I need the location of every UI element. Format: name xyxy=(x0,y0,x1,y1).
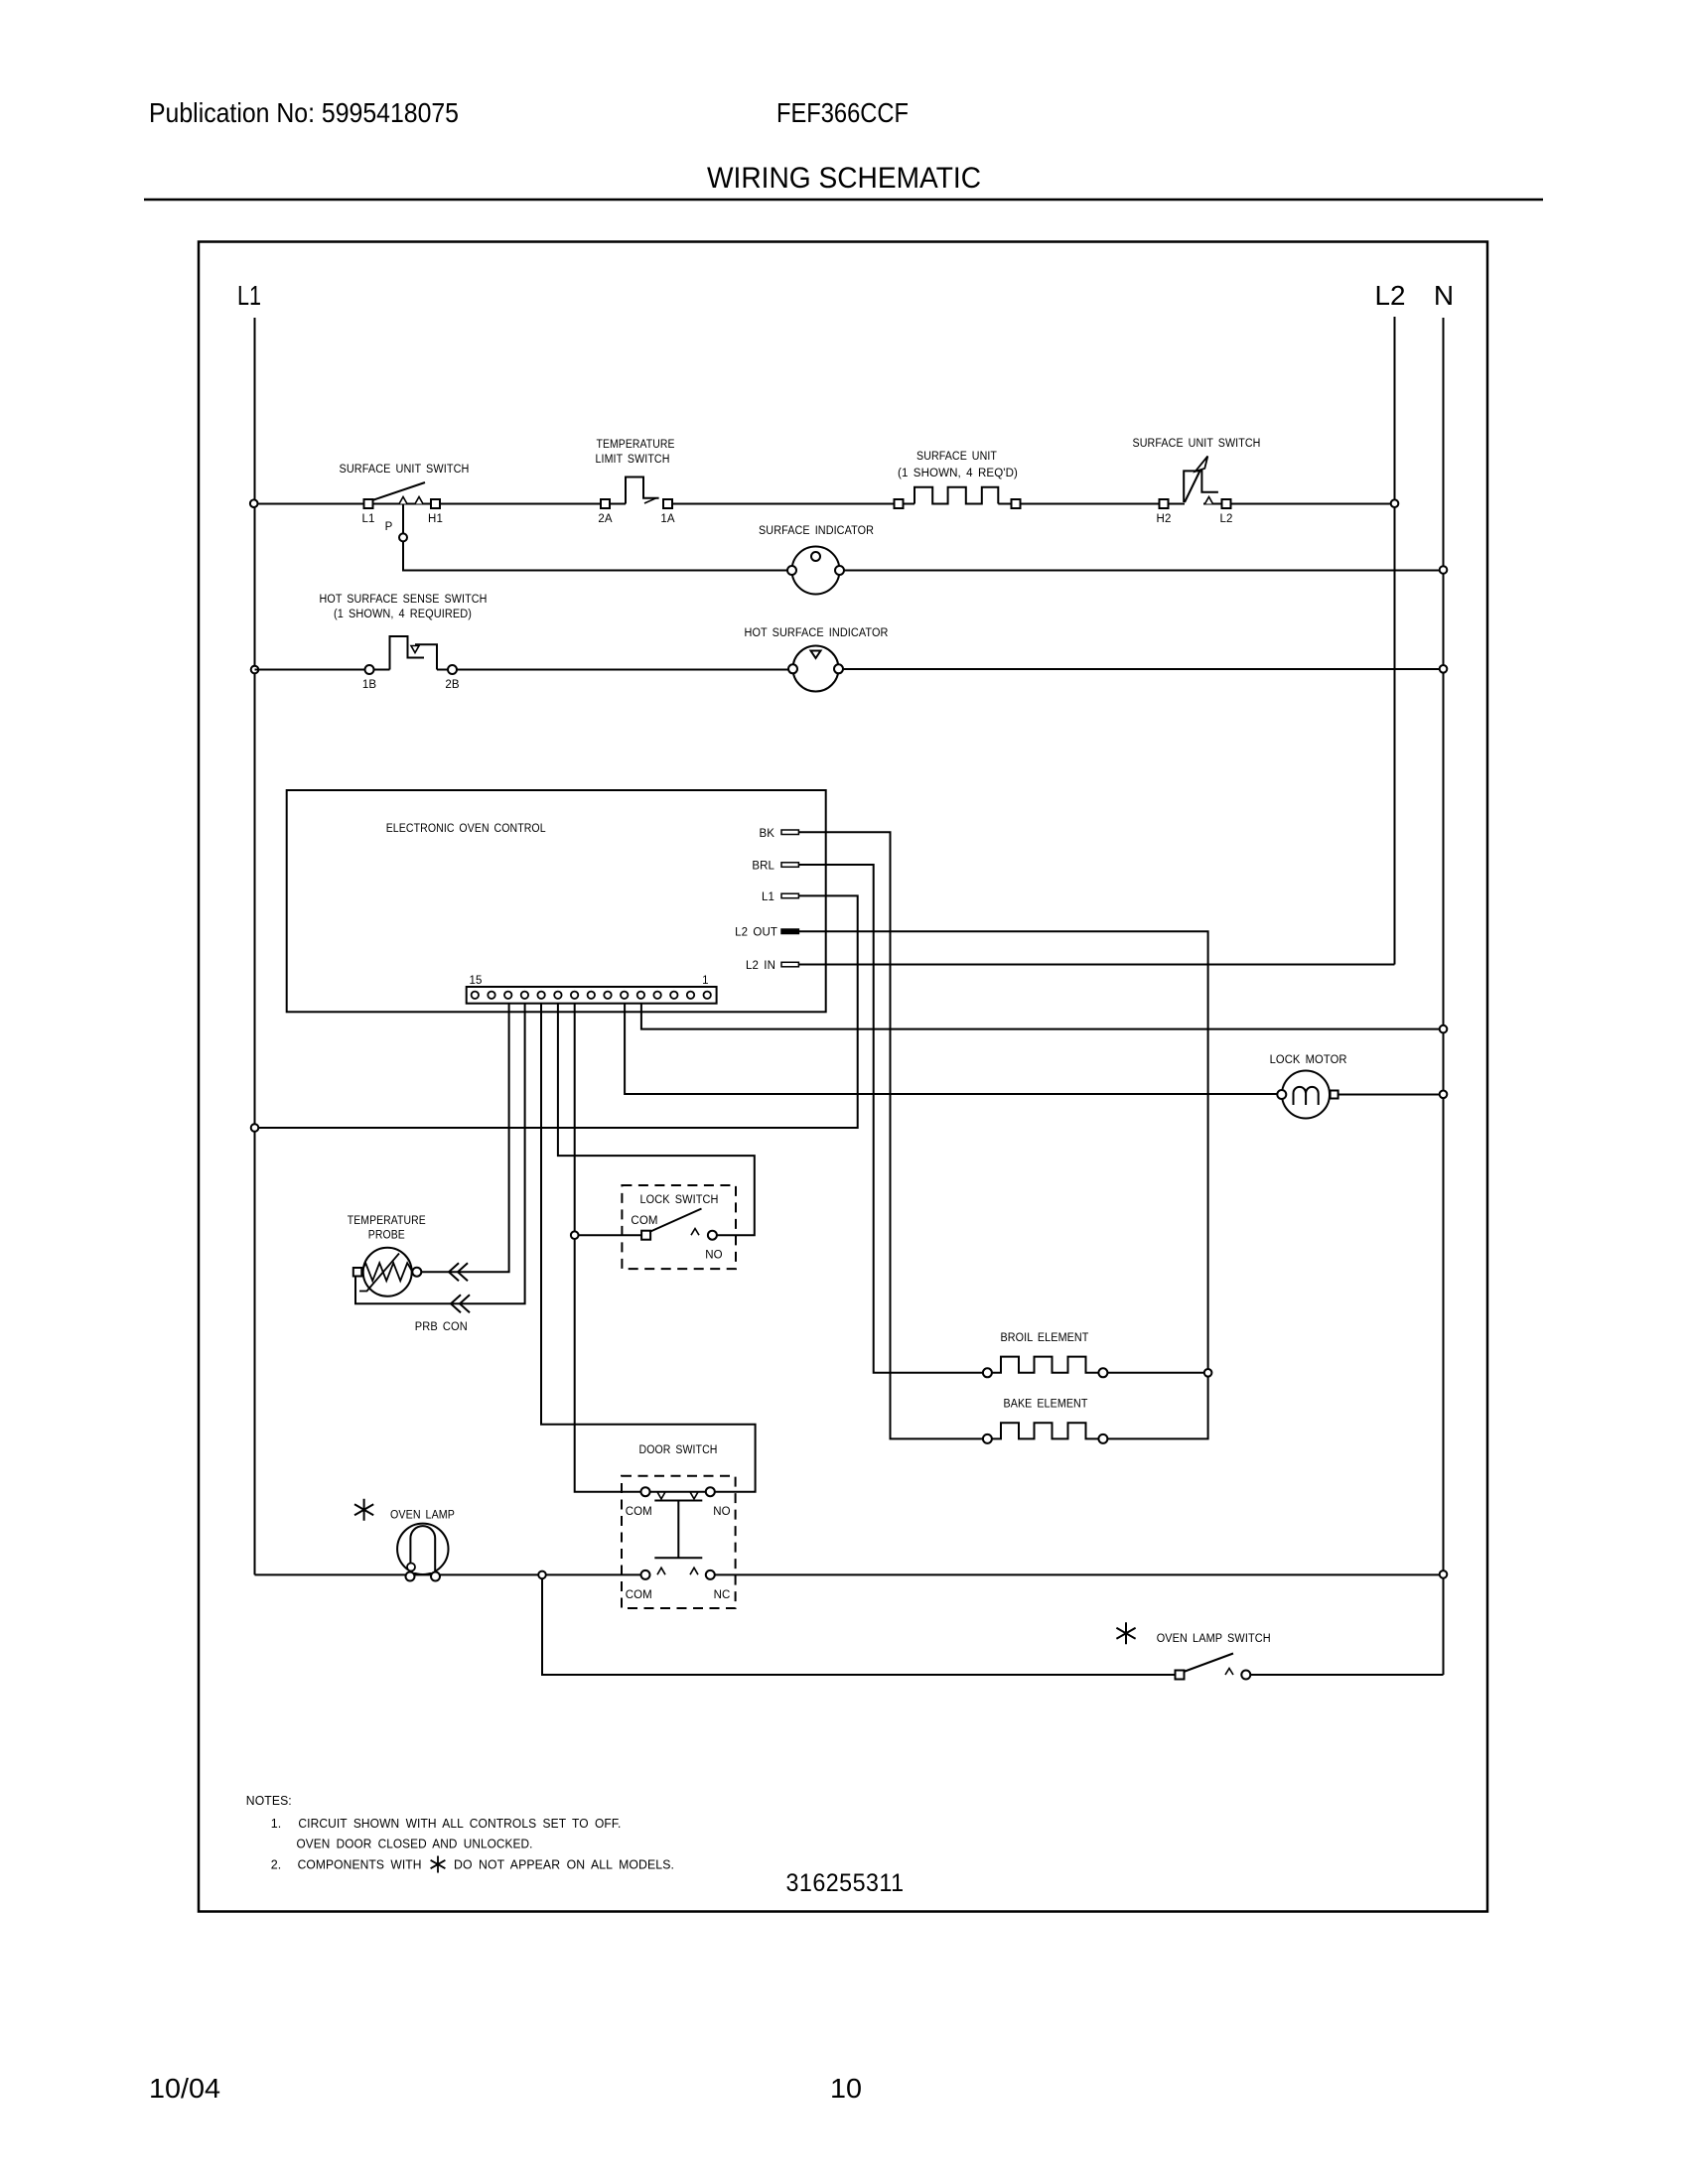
switch sense terminal 2B circle xyxy=(448,665,457,674)
svg-text:BK: BK xyxy=(759,828,774,840)
probe resistor zigzag xyxy=(361,1263,412,1281)
switch sense left bump xyxy=(390,636,425,670)
wire pin3 to temperature probe xyxy=(421,1004,508,1272)
svg-text:P: P xyxy=(385,521,393,533)
lamp surface indicator right terminal xyxy=(835,566,844,575)
svg-text:1.: 1. xyxy=(271,1817,282,1831)
svg-text:(1 SHOWN, 4 REQUIRED): (1 SHOWN, 4 REQUIRED) xyxy=(334,609,472,620)
switch door actuator xyxy=(654,1501,702,1559)
connector chevrons probe bottom xyxy=(451,1295,470,1312)
switch door lower contact triangle right xyxy=(690,1568,698,1574)
svg-text:LIMIT SWITCH: LIMIT SWITCH xyxy=(596,454,670,466)
title underline rule xyxy=(144,199,1543,202)
probe left terminal square xyxy=(353,1268,362,1277)
svg-text:NC: NC xyxy=(714,1589,731,1601)
svg-text:L2 IN: L2 IN xyxy=(746,960,775,972)
wire row3 L1 to 1B xyxy=(255,669,365,671)
switch sense contact triangle down xyxy=(411,646,419,653)
wire BRL to broil element xyxy=(798,865,983,1373)
wire oven lamp row L1 to door switch xyxy=(255,1573,641,1575)
svg-text:L2: L2 xyxy=(1375,280,1406,311)
svg-text:CIRCUIT SHOWN WITH ALL CONTROL: CIRCUIT SHOWN WITH ALL CONTROLS SET TO O… xyxy=(298,1817,621,1831)
svg-text:HOT SURFACE SENSE SWITCH: HOT SURFACE SENSE SWITCH xyxy=(320,594,488,606)
svg-text:2B: 2B xyxy=(445,679,459,691)
svg-text:L1: L1 xyxy=(762,891,774,903)
svg-text:ELECTRONIC OVEN CONTROL: ELECTRONIC OVEN CONTROL xyxy=(386,823,546,835)
lamp hot surface indicator top pin triangle xyxy=(811,651,821,659)
switch door lower contact triangle left xyxy=(657,1568,665,1574)
svg-text:SURFACE UNIT SWITCH: SURFACE UNIT SWITCH xyxy=(340,464,470,476)
switch S2 terminal H2 square xyxy=(1160,499,1169,508)
node L1 bus EOC tap xyxy=(251,1124,259,1132)
wire row2 to N bus xyxy=(844,570,1444,572)
svg-text:2A: 2A xyxy=(598,513,612,525)
wire 1B to bump xyxy=(374,669,390,671)
wire oven lamp row door NC to N xyxy=(715,1573,1444,1575)
node row3 at L1 bus xyxy=(251,666,259,674)
lamp surface indicator body xyxy=(792,547,840,595)
svg-text:OVEN DOOR CLOSED AND UNLOCKED.: OVEN DOOR CLOSED AND UNLOCKED. xyxy=(297,1838,533,1851)
lamp oven lamp inner terminal xyxy=(407,1564,415,1571)
svg-text:Publication No: 5995418075: Publication No: 5995418075 xyxy=(149,97,459,128)
switch S2 flag xyxy=(1184,471,1218,502)
wire row1 L2 terminal to L2 bus xyxy=(1203,503,1395,505)
switch sense terminal 1B circle xyxy=(365,665,374,674)
node pin11 wire at N bus xyxy=(1440,1025,1448,1033)
wire L2 IN to L2 bus xyxy=(798,964,1394,966)
wire drop to lamp switch row xyxy=(542,1578,1176,1675)
pin L2 IN stub xyxy=(781,962,798,967)
wire P drop from switch xyxy=(402,504,404,534)
motor lock motor winding xyxy=(1294,1087,1319,1105)
svg-text:NO: NO xyxy=(705,1250,722,1262)
switch S1 contact triangle H1 xyxy=(415,497,423,504)
wire P drop to row2 xyxy=(403,541,787,570)
switch temp limit bump xyxy=(626,478,659,504)
node row2 at N bus xyxy=(1440,566,1448,574)
switch oven lamp left terminal square xyxy=(1176,1671,1185,1680)
svg-text:COM: COM xyxy=(626,1506,652,1518)
svg-text:15: 15 xyxy=(470,975,483,987)
switch lock COM terminal square xyxy=(641,1231,650,1240)
node row1 at L2 bus xyxy=(1391,499,1399,507)
node row1 at L1 bus xyxy=(250,499,258,507)
heater surface unit left terminal square xyxy=(895,499,904,508)
motor lock motor right terminal square xyxy=(1331,1091,1338,1099)
svg-text:TEMPERATURE: TEMPERATURE xyxy=(348,1215,426,1227)
svg-text:PRB CON: PRB CON xyxy=(415,1321,468,1333)
wire row3 indicator to N xyxy=(843,668,1444,670)
heater bake left terminal xyxy=(983,1434,992,1443)
svg-text:COM: COM xyxy=(626,1589,652,1601)
wire lamp switch to N corner xyxy=(1250,1674,1443,1676)
switch temp limit terminal 1A square xyxy=(663,499,672,508)
switch S1 terminal H1 square xyxy=(431,499,440,508)
heater broil right terminal xyxy=(1098,1368,1107,1377)
svg-text:TEMPERATURE: TEMPERATURE xyxy=(597,439,675,451)
switch door upper contact triangle left xyxy=(657,1492,665,1499)
pin L1 stub xyxy=(781,893,798,898)
svg-text:NO: NO xyxy=(713,1506,730,1518)
svg-text:BROIL ELEMENT: BROIL ELEMENT xyxy=(1001,1332,1089,1344)
svg-text:NOTES:: NOTES: xyxy=(246,1794,292,1808)
svg-text:BRL: BRL xyxy=(752,861,774,873)
probe thermistor arrow xyxy=(359,1254,399,1292)
wire pin5 to door switch NO xyxy=(541,1004,756,1492)
wire pin7 to door switch COM xyxy=(575,1004,641,1492)
svg-text:2.: 2. xyxy=(271,1858,282,1872)
lamp surface indicator top pin xyxy=(811,552,820,561)
wire pin4 to probe return xyxy=(355,1004,525,1304)
switch temp limit contact tick xyxy=(644,498,656,503)
switch S2 contact triangle xyxy=(1205,497,1213,504)
svg-text:N: N xyxy=(1434,280,1454,311)
svg-text:SURFACE UNIT: SURFACE UNIT xyxy=(916,451,997,463)
switch door upper contact triangle right xyxy=(690,1492,698,1499)
lamp hot surface indicator left terminal xyxy=(788,664,797,673)
svg-text:DO NOT APPEAR ON ALL MODELS.: DO NOT APPEAR ON ALL MODELS. xyxy=(454,1858,674,1872)
svg-text:LOCK SWITCH: LOCK SWITCH xyxy=(640,1194,719,1206)
svg-text:10/04: 10/04 xyxy=(149,2073,220,2104)
switch door lower NC terminal xyxy=(706,1570,715,1579)
svg-text:BAKE ELEMENT: BAKE ELEMENT xyxy=(1004,1399,1088,1411)
node broil at L2OUT vertical xyxy=(1204,1369,1212,1377)
wire row3 2B to indicator xyxy=(457,669,788,671)
switch temp limit terminal 2A square xyxy=(601,499,610,508)
terminal strip pin circles xyxy=(472,992,711,999)
asterisk oven lamp switch xyxy=(1116,1622,1135,1644)
switch S2 terminal L2 square xyxy=(1222,499,1231,508)
switch oven lamp blade xyxy=(1184,1654,1233,1673)
switch sense right arm xyxy=(415,644,437,669)
EOC electronic oven control box xyxy=(287,790,826,1012)
svg-text:H1: H1 xyxy=(428,513,443,525)
wire L1 bus vertical xyxy=(254,318,256,1574)
lock switch dashed box xyxy=(622,1185,736,1269)
probe right terminal circle xyxy=(412,1268,421,1277)
heater broil left terminal xyxy=(983,1368,992,1377)
switch oven lamp contact triangle xyxy=(1225,1669,1233,1676)
node oven lamp row at N bus xyxy=(1440,1570,1448,1578)
wire pin6 to lock switch NO xyxy=(558,1004,755,1235)
pin L2 OUT stub xyxy=(781,929,798,934)
switch S2 arrow head xyxy=(1196,457,1208,472)
node P connector circle xyxy=(399,533,407,541)
wire L1 pin to L1 bus xyxy=(258,895,857,1128)
lamp surface indicator left terminal xyxy=(787,566,796,575)
wire broil to L2OUT vertical xyxy=(1107,1372,1207,1374)
svg-text:L1: L1 xyxy=(237,280,261,311)
svg-text:WIRING SCHEMATIC: WIRING SCHEMATIC xyxy=(707,162,981,195)
lamp oven lamp filament loop xyxy=(410,1526,435,1572)
motor lock motor body xyxy=(1282,1071,1330,1119)
node row3 at N bus xyxy=(1440,665,1448,673)
wire lock row to COM xyxy=(579,1234,642,1236)
node oven lamp row drop xyxy=(538,1571,546,1579)
pin BK stub xyxy=(781,830,798,835)
switch lock NO terminal circle xyxy=(708,1231,717,1240)
switch S1 contact triangle P xyxy=(399,497,407,504)
svg-text:OVEN LAMP SWITCH: OVEN LAMP SWITCH xyxy=(1157,1633,1271,1645)
wire lock motor to N bus xyxy=(1338,1094,1444,1096)
door switch dashed box xyxy=(622,1476,736,1608)
heater bake element xyxy=(992,1423,1099,1438)
heater broil element xyxy=(992,1357,1099,1373)
svg-text:1A: 1A xyxy=(660,513,674,525)
switch S2 blade xyxy=(1185,465,1203,502)
svg-text:SURFACE INDICATOR: SURFACE INDICATOR xyxy=(759,525,874,537)
switch door upper COM terminal xyxy=(641,1487,650,1496)
wire L2 OUT to elements xyxy=(798,931,1207,1438)
svg-text:FEF366CCF: FEF366CCF xyxy=(776,97,909,128)
wire row1 surface unit to H2 blade xyxy=(998,503,1185,505)
svg-text:L1: L1 xyxy=(362,513,375,525)
svg-text:DOOR SWITCH: DOOR SWITCH xyxy=(639,1444,718,1456)
lamp hot surface indicator right terminal xyxy=(834,664,843,673)
switch oven lamp right terminal circle xyxy=(1241,1671,1250,1680)
node lock motor row at N bus xyxy=(1440,1091,1448,1099)
svg-text:1B: 1B xyxy=(362,679,376,691)
switch door lower COM terminal xyxy=(641,1570,650,1579)
wire pin11 to N bus xyxy=(641,1004,1444,1029)
svg-text:L2 OUT: L2 OUT xyxy=(735,927,777,939)
schematic border frame xyxy=(199,242,1487,1912)
lamp oven lamp right terminal xyxy=(431,1572,440,1581)
wire row1 L1 to surface unit switch xyxy=(255,503,627,505)
connector chevrons probe top xyxy=(449,1263,468,1281)
pin BRL stub xyxy=(781,863,798,868)
svg-text:316255311: 316255311 xyxy=(786,1869,905,1897)
switch door upper NO terminal xyxy=(706,1487,715,1496)
svg-text:L2: L2 xyxy=(1220,513,1233,525)
wire door upper row xyxy=(650,1491,706,1493)
lamp oven lamp body xyxy=(397,1524,448,1574)
switch lock contact triangle xyxy=(691,1229,699,1236)
asterisk note 2 xyxy=(431,1856,446,1873)
heater bake right terminal xyxy=(1098,1434,1107,1443)
asterisk oven lamp xyxy=(354,1499,373,1521)
wire bump to 2B xyxy=(437,669,448,671)
wire N bus vertical xyxy=(1443,318,1445,1675)
heater surface unit element xyxy=(914,487,998,504)
lamp hot surface indicator body xyxy=(793,646,839,692)
wire pin10 to lock motor xyxy=(625,1004,1277,1094)
svg-text:SURFACE UNIT SWITCH: SURFACE UNIT SWITCH xyxy=(1133,438,1261,450)
svg-text:(1 SHOWN, 4 REQ'D): (1 SHOWN, 4 REQ'D) xyxy=(898,468,1018,479)
switch S1 blade xyxy=(372,482,425,500)
heater surface unit right terminal square xyxy=(1012,499,1021,508)
wire row1 temp limit to surface unit xyxy=(663,503,914,505)
svg-text:PROBE: PROBE xyxy=(368,1230,405,1242)
node lock row tap on pin7 wire xyxy=(571,1231,579,1239)
svg-text:COM: COM xyxy=(631,1215,657,1227)
svg-text:10: 10 xyxy=(830,2073,862,2104)
switch S1 terminal L1 square xyxy=(364,499,373,508)
svg-text:1: 1 xyxy=(702,975,709,987)
svg-text:HOT SURFACE INDICATOR: HOT SURFACE INDICATOR xyxy=(745,627,889,639)
svg-text:COMPONENTS WITH: COMPONENTS WITH xyxy=(298,1858,422,1872)
EOC terminal strip xyxy=(467,987,717,1004)
probe temperature probe body xyxy=(363,1248,412,1297)
motor lock motor left terminal xyxy=(1277,1090,1286,1099)
lamp oven lamp left terminal xyxy=(406,1572,415,1581)
svg-text:H2: H2 xyxy=(1157,513,1172,525)
svg-text:OVEN LAMP: OVEN LAMP xyxy=(390,1510,455,1522)
wire L2 bus vertical xyxy=(1394,317,1396,965)
switch lock blade xyxy=(649,1209,702,1233)
wire BK to bake element xyxy=(798,832,983,1438)
svg-text:LOCK MOTOR: LOCK MOTOR xyxy=(1270,1054,1347,1066)
